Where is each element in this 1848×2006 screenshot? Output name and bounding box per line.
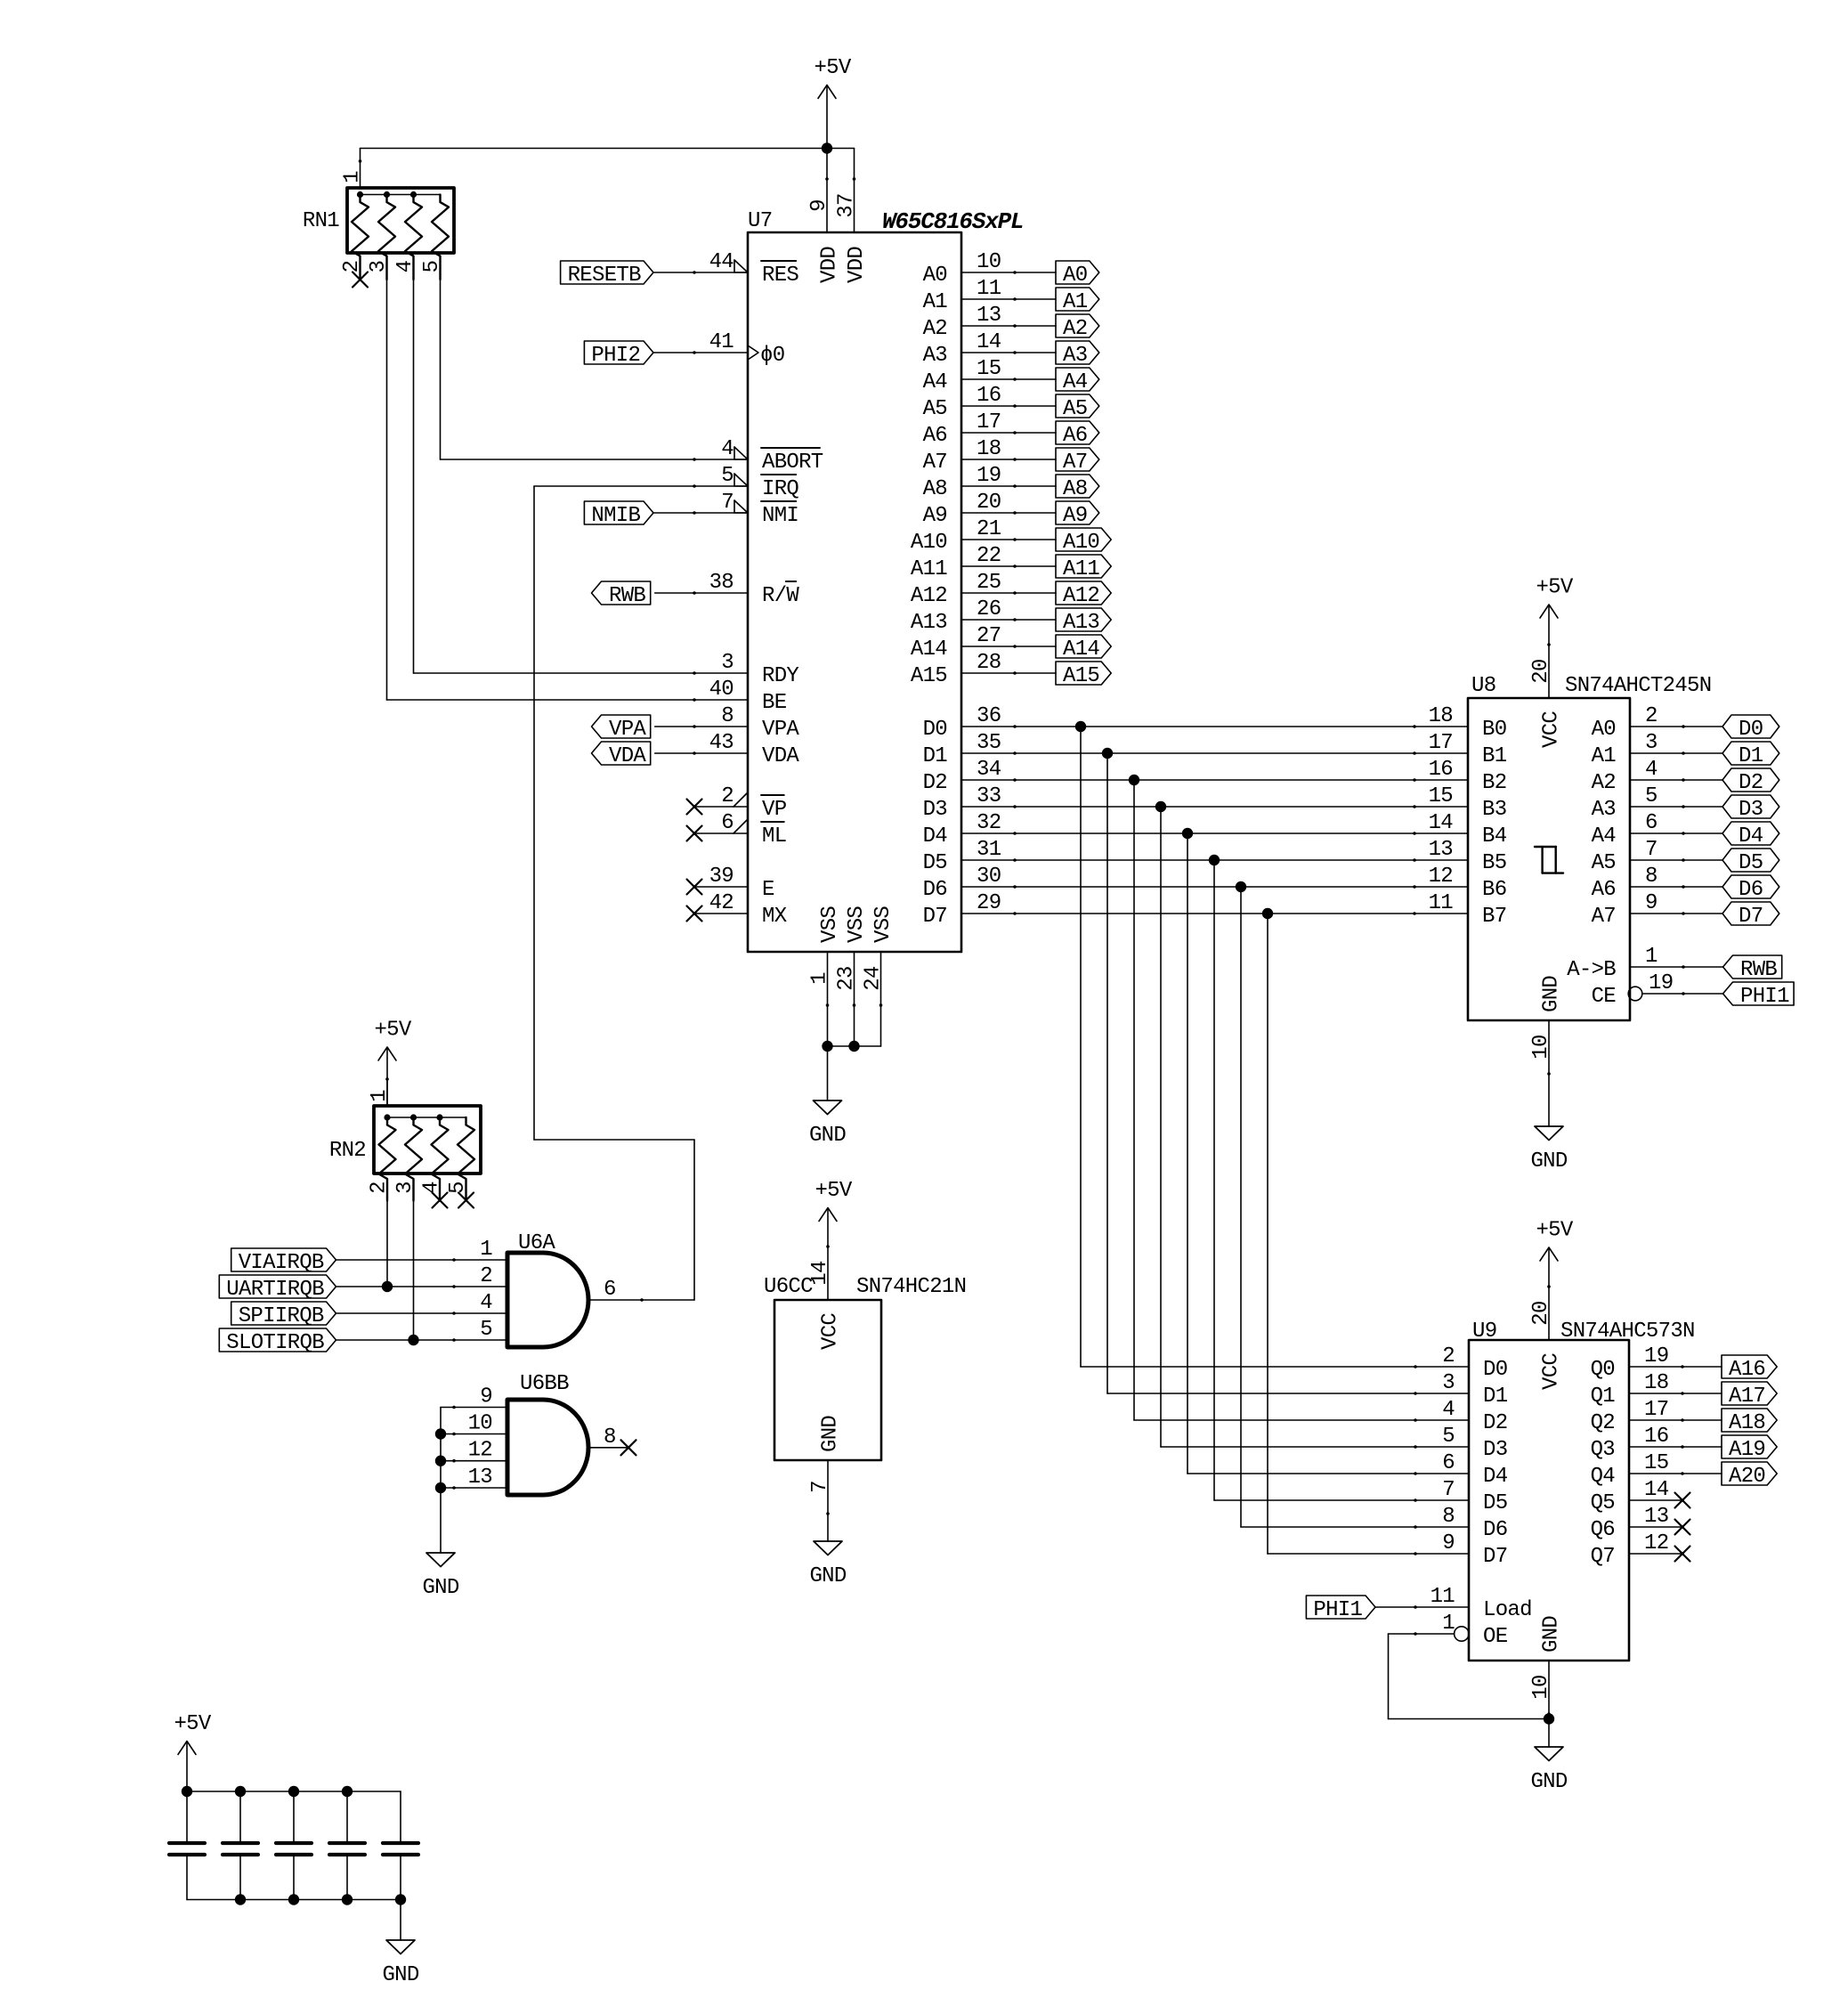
svg-text:E: E — [762, 878, 774, 902]
svg-text:2: 2 — [480, 1264, 492, 1288]
svg-text:34: 34 — [977, 758, 1001, 782]
svg-text:U9: U9 — [1472, 1320, 1496, 1344]
svg-text:VP: VP — [762, 798, 787, 822]
svg-text:30: 30 — [977, 865, 1001, 889]
svg-text:VCC: VCC — [1540, 1353, 1564, 1390]
svg-text:VDA: VDA — [609, 744, 646, 768]
svg-text:1: 1 — [480, 1238, 492, 1262]
svg-text:A->B: A->B — [1567, 958, 1616, 982]
svg-text:D1: D1 — [1739, 744, 1763, 768]
svg-text:6: 6 — [604, 1278, 616, 1302]
svg-text:A13: A13 — [911, 611, 947, 635]
svg-text:VDA: VDA — [762, 744, 799, 768]
svg-text:D7: D7 — [1739, 905, 1763, 929]
svg-text:RDY: RDY — [762, 664, 798, 688]
svg-text:Load: Load — [1483, 1598, 1532, 1622]
svg-text:RN1: RN1 — [303, 209, 339, 233]
svg-text:U6CC: U6CC — [764, 1275, 813, 1299]
svg-text:5: 5 — [420, 261, 444, 273]
svg-text:B7: B7 — [1482, 905, 1506, 929]
svg-text:U8: U8 — [1471, 674, 1495, 698]
svg-text:GND: GND — [1540, 976, 1564, 1012]
svg-text:8: 8 — [1442, 1505, 1455, 1529]
svg-text:D7: D7 — [1483, 1545, 1507, 1569]
svg-text:+5V: +5V — [1536, 1219, 1573, 1243]
svg-text:22: 22 — [977, 544, 1001, 568]
svg-text:A9: A9 — [923, 504, 947, 528]
svg-text:VCC: VCC — [1540, 711, 1564, 748]
svg-text:27: 27 — [977, 624, 1001, 648]
svg-text:D1: D1 — [923, 744, 948, 768]
svg-text:1: 1 — [1645, 945, 1658, 969]
svg-text:ϕ0: ϕ0 — [760, 344, 784, 368]
svg-text:A14: A14 — [1063, 638, 1099, 662]
svg-text:CE: CE — [1592, 985, 1617, 1009]
svg-text:D2: D2 — [923, 771, 947, 795]
svg-text:VIAIRQB: VIAIRQB — [239, 1251, 324, 1275]
svg-text:NMI: NMI — [762, 504, 798, 528]
svg-text:2: 2 — [340, 261, 364, 273]
svg-text:A12: A12 — [1063, 584, 1099, 608]
svg-text:B4: B4 — [1482, 824, 1507, 849]
svg-text:A14: A14 — [911, 638, 947, 662]
svg-text:A19: A19 — [1729, 1438, 1765, 1462]
svg-text:B5: B5 — [1482, 851, 1506, 875]
svg-text:Q3: Q3 — [1591, 1438, 1615, 1462]
svg-text:A16: A16 — [1729, 1358, 1765, 1382]
svg-text:B2: B2 — [1482, 771, 1506, 795]
svg-text:+5V: +5V — [815, 1179, 852, 1203]
svg-text:19: 19 — [1649, 971, 1673, 995]
svg-text:16: 16 — [977, 384, 1001, 408]
svg-text:6: 6 — [721, 811, 734, 835]
svg-text:39: 39 — [709, 865, 734, 889]
svg-text:13: 13 — [1644, 1505, 1668, 1529]
svg-text:19: 19 — [977, 464, 1001, 488]
svg-text:A11: A11 — [1063, 557, 1099, 581]
svg-text:15: 15 — [1644, 1451, 1668, 1475]
svg-text:11: 11 — [1429, 891, 1454, 915]
svg-text:A7: A7 — [923, 451, 947, 475]
svg-text:D5: D5 — [923, 851, 947, 875]
svg-text:18: 18 — [1429, 704, 1453, 728]
svg-text:D4: D4 — [1739, 824, 1763, 849]
svg-text:A0: A0 — [1063, 264, 1087, 288]
svg-text:B1: B1 — [1482, 744, 1507, 768]
svg-text:GND: GND — [819, 1416, 843, 1452]
svg-text:SN74HC21N: SN74HC21N — [856, 1275, 966, 1299]
svg-text:SLOTIRQB: SLOTIRQB — [226, 1331, 324, 1355]
svg-text:GND: GND — [1540, 1616, 1564, 1653]
svg-text:SPIIRQB: SPIIRQB — [239, 1304, 324, 1328]
svg-text:13: 13 — [977, 304, 1001, 328]
svg-text:A20: A20 — [1729, 1465, 1765, 1489]
svg-text:3: 3 — [1442, 1371, 1455, 1395]
svg-text:43: 43 — [709, 731, 734, 755]
svg-text:A1: A1 — [1063, 290, 1088, 314]
svg-text:U7: U7 — [748, 209, 772, 233]
svg-text:4: 4 — [393, 260, 417, 272]
svg-text:20: 20 — [1529, 659, 1553, 683]
svg-text:D3: D3 — [923, 798, 947, 822]
svg-text:Q2: Q2 — [1591, 1411, 1615, 1435]
svg-text:Q4: Q4 — [1591, 1465, 1616, 1489]
svg-text:10: 10 — [468, 1412, 492, 1436]
svg-text:40: 40 — [709, 678, 734, 702]
svg-text:2: 2 — [368, 1182, 392, 1194]
svg-text:A15: A15 — [911, 664, 947, 688]
svg-text:9: 9 — [807, 199, 831, 212]
svg-text:37: 37 — [835, 193, 859, 217]
svg-text:A15: A15 — [1063, 664, 1099, 688]
svg-text:D3: D3 — [1739, 798, 1763, 822]
svg-text:NMIB: NMIB — [591, 504, 640, 528]
svg-text:11: 11 — [1431, 1585, 1455, 1609]
svg-text:A2: A2 — [1592, 771, 1616, 795]
svg-text:14: 14 — [977, 330, 1001, 354]
svg-text:RWB: RWB — [609, 584, 645, 608]
svg-text:D0: D0 — [1483, 1358, 1507, 1382]
svg-text:19: 19 — [1644, 1344, 1668, 1368]
svg-text:MX: MX — [762, 905, 787, 929]
svg-text:D7: D7 — [923, 905, 947, 929]
svg-text:4: 4 — [1645, 758, 1658, 782]
svg-text:12: 12 — [1429, 865, 1453, 889]
svg-text:A11: A11 — [911, 557, 947, 581]
svg-text:A6: A6 — [1592, 878, 1616, 902]
svg-text:Q0: Q0 — [1591, 1358, 1615, 1382]
svg-text:28: 28 — [977, 651, 1001, 675]
svg-text:14: 14 — [808, 1261, 832, 1286]
svg-text:D4: D4 — [1483, 1465, 1508, 1489]
svg-text:A3: A3 — [1063, 344, 1087, 368]
svg-text:SN74AHC573N: SN74AHC573N — [1560, 1320, 1695, 1344]
svg-text:GND: GND — [422, 1576, 458, 1600]
svg-text:D2: D2 — [1739, 771, 1763, 795]
svg-text:A5: A5 — [1592, 851, 1616, 875]
svg-text:RESETB: RESETB — [568, 264, 642, 288]
svg-text:9: 9 — [480, 1385, 492, 1409]
svg-text:A17: A17 — [1729, 1385, 1765, 1409]
svg-text:IRQ: IRQ — [762, 477, 798, 501]
svg-text:20: 20 — [1529, 1301, 1553, 1325]
svg-text:A0: A0 — [923, 264, 947, 288]
svg-text:4: 4 — [721, 437, 734, 461]
svg-text:7: 7 — [808, 1481, 832, 1493]
svg-text:5: 5 — [480, 1318, 492, 1342]
svg-text:D2: D2 — [1483, 1411, 1507, 1435]
svg-text:D5: D5 — [1483, 1491, 1507, 1515]
svg-text:36: 36 — [977, 704, 1001, 728]
svg-text:6: 6 — [1442, 1451, 1455, 1475]
svg-text:7: 7 — [1442, 1478, 1455, 1502]
svg-text:35: 35 — [977, 731, 1001, 755]
svg-text:15: 15 — [977, 357, 1001, 381]
svg-text:11: 11 — [977, 277, 1001, 301]
svg-text:D0: D0 — [1739, 718, 1763, 742]
svg-text:17: 17 — [977, 410, 1001, 434]
svg-text:D5: D5 — [1739, 851, 1763, 875]
svg-text:1: 1 — [341, 171, 365, 183]
svg-text:U6BB: U6BB — [520, 1372, 569, 1396]
svg-text:A1: A1 — [923, 290, 948, 314]
svg-text:A2: A2 — [923, 317, 947, 341]
svg-text:A12: A12 — [911, 584, 947, 608]
svg-text:D4: D4 — [923, 824, 948, 849]
svg-text:ABORT: ABORT — [762, 451, 823, 475]
svg-text:4: 4 — [1442, 1398, 1455, 1422]
svg-text:A10: A10 — [1063, 531, 1099, 555]
svg-text:12: 12 — [468, 1439, 492, 1463]
svg-text:25: 25 — [977, 571, 1001, 595]
svg-text:3: 3 — [367, 261, 391, 273]
svg-text:31: 31 — [977, 838, 1001, 862]
svg-text:6: 6 — [1645, 811, 1658, 835]
svg-text:8: 8 — [721, 704, 734, 728]
svg-text:BE: BE — [762, 691, 787, 715]
svg-text:A2: A2 — [1063, 317, 1087, 341]
svg-text:20: 20 — [977, 491, 1001, 515]
svg-text:A5: A5 — [923, 397, 947, 421]
svg-text:GND: GND — [1530, 1770, 1567, 1794]
svg-text:10: 10 — [977, 250, 1001, 274]
svg-text:5: 5 — [1442, 1425, 1455, 1449]
svg-text:A4: A4 — [923, 370, 948, 394]
svg-text:1: 1 — [368, 1090, 392, 1102]
svg-text:10: 10 — [1529, 1675, 1553, 1699]
svg-text:16: 16 — [1429, 758, 1453, 782]
svg-text:4: 4 — [420, 1182, 444, 1194]
svg-text:18: 18 — [1644, 1371, 1668, 1395]
svg-text:PHI2: PHI2 — [591, 344, 640, 368]
svg-text:D0: D0 — [923, 718, 947, 742]
svg-text:GND: GND — [809, 1124, 846, 1148]
svg-text:3: 3 — [721, 651, 734, 675]
svg-text:VCC: VCC — [819, 1313, 843, 1350]
svg-text:10: 10 — [1529, 1035, 1553, 1059]
svg-text:5: 5 — [1645, 784, 1658, 808]
svg-text:1: 1 — [1442, 1612, 1455, 1636]
svg-text:VSS: VSS — [871, 906, 896, 943]
svg-text:RN2: RN2 — [329, 1139, 366, 1163]
svg-text:7: 7 — [721, 491, 734, 515]
svg-text:A4: A4 — [1592, 824, 1617, 849]
svg-text:17: 17 — [1644, 1398, 1668, 1422]
svg-text:SN74AHCT245N: SN74AHCT245N — [1565, 674, 1711, 698]
svg-text:Q1: Q1 — [1591, 1385, 1616, 1409]
svg-text:38: 38 — [709, 571, 734, 595]
svg-text:8: 8 — [604, 1425, 616, 1450]
svg-text:2: 2 — [1645, 704, 1658, 728]
svg-text:ML: ML — [762, 824, 786, 849]
svg-text:A4: A4 — [1063, 370, 1088, 394]
svg-text:13: 13 — [1429, 838, 1453, 862]
svg-text:5: 5 — [721, 464, 734, 488]
svg-text:+5V: +5V — [814, 56, 851, 80]
svg-text:26: 26 — [977, 597, 1001, 621]
svg-text:D3: D3 — [1483, 1438, 1507, 1462]
svg-text:2: 2 — [1442, 1344, 1455, 1368]
svg-text:1: 1 — [808, 972, 832, 985]
svg-text:GND: GND — [1530, 1149, 1567, 1174]
svg-text:RWB: RWB — [1740, 958, 1777, 982]
svg-text:A7: A7 — [1063, 451, 1087, 475]
svg-text:A6: A6 — [923, 424, 947, 448]
svg-text:B3: B3 — [1482, 798, 1506, 822]
svg-text:9: 9 — [1645, 891, 1658, 915]
svg-text:D6: D6 — [1483, 1518, 1507, 1542]
svg-text:A3: A3 — [1592, 798, 1616, 822]
svg-text:+5V: +5V — [174, 1712, 211, 1736]
svg-text:U6A: U6A — [518, 1231, 555, 1255]
svg-text:+5V: +5V — [1536, 576, 1573, 600]
svg-text:18: 18 — [977, 437, 1001, 461]
svg-text:A13: A13 — [1063, 611, 1099, 635]
svg-text:D6: D6 — [1739, 878, 1763, 902]
svg-text:23: 23 — [835, 966, 859, 990]
svg-text:5: 5 — [446, 1182, 470, 1194]
svg-text:29: 29 — [977, 891, 1001, 915]
svg-text:VSS: VSS — [845, 906, 869, 943]
svg-text:A7: A7 — [1592, 905, 1616, 929]
svg-text:3: 3 — [393, 1182, 417, 1194]
svg-text:A1: A1 — [1592, 744, 1617, 768]
svg-text:2: 2 — [721, 784, 734, 808]
svg-text:32: 32 — [977, 811, 1001, 835]
svg-text:VPA: VPA — [762, 718, 799, 742]
svg-text:VDD: VDD — [818, 247, 842, 283]
svg-text:3: 3 — [1645, 731, 1658, 755]
svg-text:4: 4 — [480, 1291, 492, 1315]
svg-text:B6: B6 — [1482, 878, 1506, 902]
svg-text:PHI1: PHI1 — [1313, 1598, 1362, 1622]
svg-text:+5V: +5V — [374, 1019, 411, 1043]
svg-text:VDD: VDD — [845, 247, 869, 283]
svg-text:A0: A0 — [1592, 718, 1616, 742]
svg-text:A8: A8 — [1063, 477, 1087, 501]
svg-text:UARTIRQB: UARTIRQB — [226, 1278, 324, 1302]
svg-text:A8: A8 — [923, 477, 947, 501]
svg-text:8: 8 — [1645, 865, 1658, 889]
svg-text:RES: RES — [762, 264, 798, 288]
svg-text:Q7: Q7 — [1591, 1545, 1615, 1569]
svg-text:VSS: VSS — [818, 906, 842, 943]
svg-text:33: 33 — [977, 784, 1001, 808]
svg-text:13: 13 — [468, 1466, 492, 1490]
svg-text:GND: GND — [809, 1564, 846, 1588]
svg-text:41: 41 — [709, 330, 734, 354]
svg-text:21: 21 — [977, 517, 1001, 541]
svg-text:16: 16 — [1644, 1425, 1668, 1449]
svg-text:D6: D6 — [923, 878, 947, 902]
svg-text:GND: GND — [382, 1963, 418, 1987]
svg-text:W65C816SxPL: W65C816SxPL — [882, 208, 1023, 235]
svg-text:PHI1: PHI1 — [1740, 985, 1789, 1009]
svg-text:OE: OE — [1483, 1625, 1508, 1649]
svg-text:14: 14 — [1644, 1478, 1669, 1502]
svg-text:A18: A18 — [1729, 1411, 1765, 1435]
svg-text:Q5: Q5 — [1591, 1491, 1615, 1515]
svg-text:A10: A10 — [911, 531, 947, 555]
svg-text:A9: A9 — [1063, 504, 1087, 528]
svg-text:12: 12 — [1644, 1531, 1668, 1555]
svg-text:42: 42 — [709, 891, 734, 915]
svg-text:15: 15 — [1429, 784, 1453, 808]
svg-text:7: 7 — [1645, 838, 1658, 862]
svg-text:A3: A3 — [923, 344, 947, 368]
svg-text:Q6: Q6 — [1591, 1518, 1615, 1542]
svg-text:9: 9 — [1442, 1531, 1455, 1555]
svg-text:B0: B0 — [1482, 718, 1506, 742]
svg-text:D1: D1 — [1483, 1385, 1508, 1409]
svg-text:R/W: R/W — [762, 584, 799, 608]
svg-text:14: 14 — [1429, 811, 1454, 835]
svg-text:24: 24 — [862, 966, 886, 991]
svg-text:VPA: VPA — [609, 718, 646, 742]
svg-text:A6: A6 — [1063, 424, 1087, 448]
svg-text:A5: A5 — [1063, 397, 1087, 421]
svg-text:17: 17 — [1429, 731, 1453, 755]
svg-text:44: 44 — [709, 250, 734, 274]
